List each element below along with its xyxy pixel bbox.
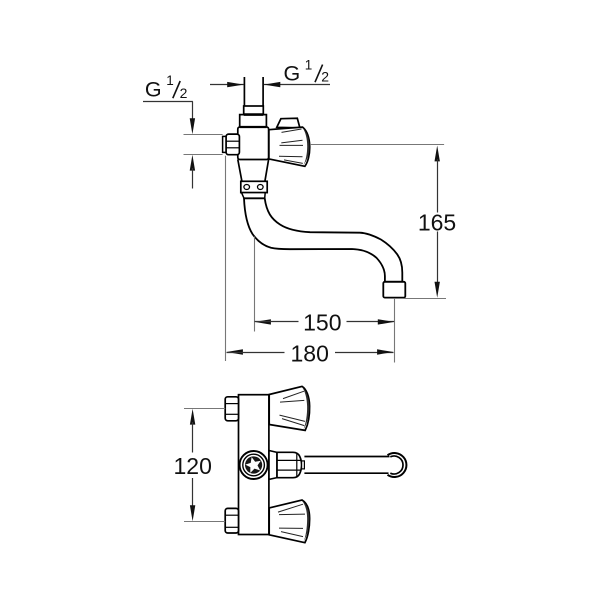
extension line 120 bottom <box>184 521 225 523</box>
knob top shading <box>302 387 309 430</box>
spout flare front <box>269 451 277 480</box>
dimension 120 vertical <box>190 409 195 522</box>
knob side view <box>269 127 310 166</box>
knob cap side view <box>277 118 300 128</box>
extension line inlet top <box>184 134 223 136</box>
leader vertical with down arrow <box>190 102 195 135</box>
neck below collar <box>242 193 266 199</box>
hex nut top front <box>225 397 238 421</box>
svg-text:150: 150 <box>303 309 341 335</box>
svg-text:2: 2 <box>180 85 188 101</box>
joint line fitting/bonnet <box>244 113 264 116</box>
knob bottom flutes <box>278 504 305 536</box>
spout tube front <box>304 457 389 474</box>
taper below body <box>238 160 269 182</box>
svg-text:180: 180 <box>291 341 329 367</box>
extension line 150 left <box>254 237 256 332</box>
extension line 180 left <box>225 156 227 361</box>
spout end inner arc <box>390 456 403 474</box>
label G1/2 left <box>145 73 188 101</box>
hex nut bottom front <box>225 508 238 533</box>
joint line bonnet/body <box>240 126 267 128</box>
spout end outer arc <box>388 453 407 477</box>
svg-text:165: 165 <box>418 209 456 235</box>
label G1/2 right <box>284 58 330 86</box>
svg-text:G: G <box>145 77 162 101</box>
fitting box small <box>244 106 264 115</box>
escutcheon middle ring <box>243 454 265 476</box>
extension line inlet bottom <box>184 154 223 156</box>
svg-text:G: G <box>284 62 301 86</box>
extension line 165 bottom <box>404 298 447 300</box>
collar hole left <box>244 185 250 190</box>
dimension G1/2 top: right line with arrow <box>264 82 330 87</box>
dimension 150 <box>255 319 395 324</box>
valve body <box>238 127 269 160</box>
escutcheon outer ring <box>240 451 268 479</box>
extension line right below aerator <box>394 298 396 363</box>
knob top front <box>269 386 309 430</box>
aerator cap <box>383 282 405 298</box>
knob flutes <box>279 129 303 163</box>
svg-text:1: 1 <box>166 73 174 88</box>
extension line 165 top <box>310 144 444 146</box>
spout step <box>302 461 305 469</box>
svg-text:2: 2 <box>321 69 329 85</box>
knob top flutes <box>280 391 306 425</box>
extension line 120 top <box>184 408 225 410</box>
escutcheon dark disc <box>245 456 262 473</box>
wall step <box>223 136 227 152</box>
wire inlet pipe top <box>244 77 263 107</box>
faucet body front <box>239 395 269 535</box>
bonnet box <box>240 115 267 127</box>
collar hole right <box>258 185 264 190</box>
knob bottom front <box>269 500 309 543</box>
dimension 180 <box>227 349 394 354</box>
dimension 165 vertical line <box>435 146 440 298</box>
escutcheon star <box>244 455 263 473</box>
leader vertical with up arrow <box>190 155 195 189</box>
knob bottom shading <box>302 501 309 542</box>
hex nut side <box>226 134 239 155</box>
leader underline G1/2 left <box>143 101 193 103</box>
svg-text:120: 120 <box>174 453 212 479</box>
dimension G1/2 top: left line with arrow <box>210 82 244 87</box>
collar flange <box>241 181 267 192</box>
spout S-tube <box>244 198 402 281</box>
svg-text:1: 1 <box>305 58 313 73</box>
spout nut front <box>277 452 302 477</box>
knob face shading <box>303 128 310 166</box>
